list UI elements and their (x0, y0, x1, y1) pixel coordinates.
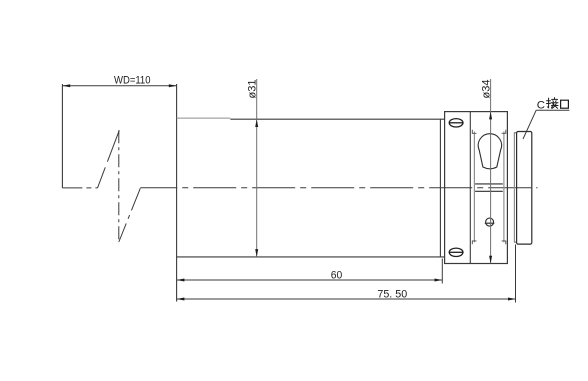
screw S2 ellipse (449, 248, 463, 256)
main optical axis centerline (140, 187, 537, 189)
break diagonal 1 (98, 130, 120, 188)
small screw slot (485, 222, 495, 224)
extension line 60 right (441, 259, 443, 284)
arrow 60 left (177, 279, 185, 282)
spacer ring edge (gray) (513, 133, 515, 243)
mount body outline (ø34 section) (445, 112, 508, 264)
svg-text:WD=110: WD=110 (114, 75, 151, 87)
arrow ø31 bottom (255, 249, 258, 257)
screw S2 slot (449, 251, 463, 253)
notch top left (472, 130, 476, 134)
dimension WD=110 line (62, 85, 176, 87)
svg-text:75. 50: 75. 50 (377, 289, 407, 301)
arrow ø34 bottom (489, 256, 492, 264)
ring tick bottom (514, 241, 516, 243)
screw S1 slot (449, 122, 463, 124)
notch top right (502, 130, 506, 134)
svg-text:60: 60 (331, 270, 343, 282)
svg-text:C: C (537, 99, 545, 111)
ring tick top (514, 132, 516, 134)
barrel rear inner edge (439, 119, 441, 257)
label underline (536, 109, 569, 111)
band lower line (475, 190, 503, 192)
barrel front hood top edge (gray) (177, 117, 231, 119)
dimension 60 line (177, 279, 443, 281)
break diagonal 2 (119, 188, 141, 242)
small screw hole circle (486, 218, 494, 226)
flange right edge (469, 112, 471, 264)
dimension ø31 line (256, 79, 258, 257)
keyhole slot window (478, 134, 501, 169)
glyph 接 (vector strokes) (546, 98, 558, 109)
break vertical centerline (118, 130, 120, 242)
band upper line (475, 183, 503, 185)
screw S1 ellipse (449, 119, 463, 127)
arrow ø34 top (489, 112, 492, 120)
recessed edge left (gray) (473, 132, 475, 243)
front face / left extension line (176, 84, 178, 302)
arrow 75.50 right (508, 298, 516, 301)
recessed edge right (gray) (503, 132, 505, 243)
object plane line (61, 84, 63, 188)
arrow WD left (62, 84, 70, 87)
notch bottom left (472, 241, 476, 244)
arrow 75.50 left (177, 298, 185, 301)
leader line to C-mount (523, 110, 536, 139)
axis left segment (62, 187, 97, 189)
svg-text:ø34: ø34 (481, 80, 493, 99)
barrel top edge (230, 118, 444, 120)
barrel bottom edge (177, 256, 445, 258)
arrow WD right (169, 84, 177, 87)
svg-text:ø31: ø31 (247, 80, 259, 99)
glyph 口 (vector strokes) (561, 100, 569, 108)
arrow ø31 top (255, 119, 258, 127)
arrow 60 right (435, 279, 443, 282)
C-mount cylinder (517, 132, 532, 245)
notch bottom right (502, 241, 506, 244)
dimension 75.50 line (177, 298, 516, 300)
dimension ø34 line (490, 79, 492, 264)
extension line 75.50 right (515, 245, 517, 303)
